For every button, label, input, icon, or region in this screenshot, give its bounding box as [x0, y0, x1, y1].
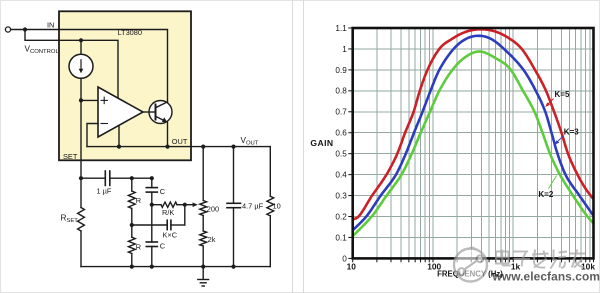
svg-text:C: C: [160, 187, 166, 196]
node: OUT rail to pot: [201, 145, 205, 149]
wire: IN input lead: [11, 29, 59, 31]
capacitor 4.7uF: [233, 147, 235, 204]
svg-text:RSET: RSET: [61, 214, 79, 225]
capacitor C upper: [151, 178, 153, 187]
svg-text:GAIN: GAIN: [310, 138, 333, 148]
wire: current source bottom lead to SET node: [80, 78, 82, 100]
axis ticks: [348, 28, 593, 262]
wire: current source top lead: [80, 40, 82, 54]
curve K=5 (red): [353, 29, 594, 219]
capacitor 1uF: [81, 177, 105, 179]
resistor 2k: [202, 216, 204, 232]
svg-text:4.7 µF: 4.7 µF: [242, 201, 264, 210]
curve K=2 (green): [353, 51, 594, 236]
wire: feedback from OUT rail to - input: [87, 124, 98, 147]
curve label K=2: [538, 176, 556, 199]
svg-text:1: 1: [342, 45, 347, 54]
node: SET junction: [79, 98, 83, 102]
svg-text:200: 200: [207, 205, 219, 214]
watermark: [454, 248, 600, 284]
svg-text:SET: SET: [63, 152, 78, 161]
resistor 10 load: [269, 147, 271, 197]
svg-text:VCONTROL: VCONTROL: [25, 44, 60, 55]
svg-text:0.7: 0.7: [335, 108, 347, 117]
node: bus junctions: [130, 265, 134, 269]
capacitor KxC: [132, 224, 167, 226]
svg-text:0.4: 0.4: [335, 171, 347, 180]
svg-text:2k: 2k: [208, 235, 216, 244]
node: IN/VCONTROL junction: [23, 27, 27, 31]
svg-text:K=5: K=5: [555, 90, 570, 99]
wire: to C branch: [132, 177, 152, 179]
panel separator lines: [292, 0, 294, 293]
potentiometer 200: [202, 147, 204, 201]
transistor Q1: [149, 101, 172, 124]
circuit labels: [25, 20, 281, 251]
ground: [202, 267, 204, 280]
svg-text:10: 10: [347, 262, 357, 272]
svg-text:0.2: 0.2: [335, 212, 347, 221]
node: C / RK junction: [150, 203, 154, 207]
resistor R lower: [131, 225, 133, 237]
wiper arrow to pot: [185, 204, 193, 206]
svg-text:OUT: OUT: [172, 137, 188, 146]
node: op-amp supply on OUT rail: [117, 145, 121, 149]
svg-text:0.9: 0.9: [335, 66, 347, 75]
wire: VCONTROL branch: [25, 30, 118, 99]
resistor RSET: [80, 178, 82, 207]
wire: op-amp + input: [81, 99, 98, 101]
svg-text:0.6: 0.6: [335, 129, 347, 138]
svg-text:1.1: 1.1: [335, 24, 347, 33]
svg-text:0.8: 0.8: [335, 87, 347, 96]
curve label K=3: [555, 128, 580, 145]
wire: SET pin down out of package: [80, 100, 82, 178]
svg-text:R/K: R/K: [162, 208, 174, 217]
op-amp U1: [98, 87, 143, 137]
wire: OUT rail: [87, 146, 270, 148]
svg-text:C: C: [160, 242, 166, 251]
input terminal: [5, 27, 10, 32]
node: SET external junction: [79, 176, 83, 180]
svg-text:R: R: [136, 196, 141, 205]
node: emitter on OUT rail: [165, 145, 169, 149]
svg-text:0.5: 0.5: [335, 150, 347, 159]
svg-text:K=2: K=2: [538, 190, 553, 199]
svg-text:IN: IN: [47, 20, 54, 29]
curve K=3 (blue): [353, 36, 594, 230]
IC body LT3080 (yellow block): [59, 11, 191, 160]
x axis labels: [347, 262, 596, 272]
svg-text:0.1: 0.1: [335, 233, 347, 242]
y axis labels: [335, 24, 347, 263]
svg-text:VOUT: VOUT: [241, 136, 259, 147]
resistor R upper: [131, 178, 133, 191]
svg-text:1 µF: 1 µF: [97, 187, 112, 196]
node: OUT rail to 4.7uF: [231, 145, 235, 149]
svg-text:10: 10: [273, 201, 281, 210]
capacitor C lower: [151, 205, 153, 242]
svg-text:LT3080: LT3080: [118, 28, 143, 37]
node: top of C branch: [150, 176, 154, 180]
node: R ladder midpoint: [130, 223, 134, 227]
wire: op-amp bottom supply to OUT rail: [118, 126, 120, 147]
svg-text:K×C: K×C: [163, 231, 178, 240]
curve label K=5: [545, 90, 570, 107]
node: top of R ladder: [130, 176, 134, 180]
svg-text:0.3: 0.3: [335, 192, 347, 201]
node: RK / KxC junction: [183, 203, 187, 207]
resistor R/K: [152, 204, 161, 206]
node: VCONTROL rail junction: [79, 38, 83, 42]
svg-text:R: R: [136, 242, 141, 251]
wire: ground bus: [81, 266, 270, 268]
plot frame: [353, 28, 594, 258]
wire: IN internal to collector rail: [59, 30, 168, 102]
current source I1: [69, 54, 93, 78]
wire: emitter to OUT rail: [167, 122, 169, 146]
svg-text:K=3: K=3: [564, 128, 579, 137]
svg-text:www.elecfans.com: www.elecfans.com: [492, 270, 600, 284]
